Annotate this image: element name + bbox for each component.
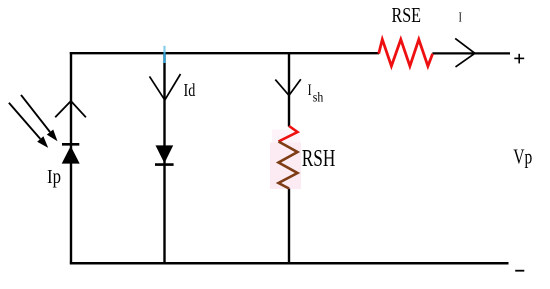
wire left branch <box>70 52 72 263</box>
photodiode D1 (Ip branch) <box>62 144 80 163</box>
svg-text:RSE: RSE <box>392 3 422 27</box>
current arrow I (open arrowhead on top wire) <box>455 38 475 67</box>
terminal plus <box>514 54 524 64</box>
wire bottom rail <box>70 262 509 265</box>
light ray arrow 1 <box>21 95 58 141</box>
resistor RSH highlight glow <box>270 143 301 190</box>
diode D2 (Id branch, pointing down) <box>155 145 174 164</box>
wire top rail right segment <box>432 52 510 54</box>
label I sh <box>308 82 324 105</box>
svg-text:RSH: RSH <box>302 146 336 172</box>
wire diode branch <box>163 52 165 263</box>
svg-text:I: I <box>308 82 312 99</box>
svg-text:Ip: Ip <box>47 166 61 188</box>
current source arrow (Ip, pointing up) <box>55 101 86 117</box>
svg-text:I: I <box>459 9 463 24</box>
svg-text:Id: Id <box>184 80 196 100</box>
resistor RSE (red zigzag) <box>379 39 433 66</box>
resistor RSH zigzag (brown) <box>279 142 298 189</box>
node junction cyan tick <box>163 46 165 63</box>
wire shunt branch top <box>288 52 290 127</box>
wire top rail left segment <box>70 52 379 54</box>
svg-text:sh: sh <box>313 90 324 105</box>
current arrow Id (pointing down) <box>150 74 181 100</box>
current arrow Ish (pointing down) <box>275 79 301 95</box>
svg-text:Vp: Vp <box>513 144 532 168</box>
terminal minus <box>515 270 524 272</box>
light ray arrow 2 <box>9 103 48 148</box>
resistor RSH zigzag (red top) <box>279 126 298 142</box>
wire shunt branch bottom <box>288 188 290 263</box>
